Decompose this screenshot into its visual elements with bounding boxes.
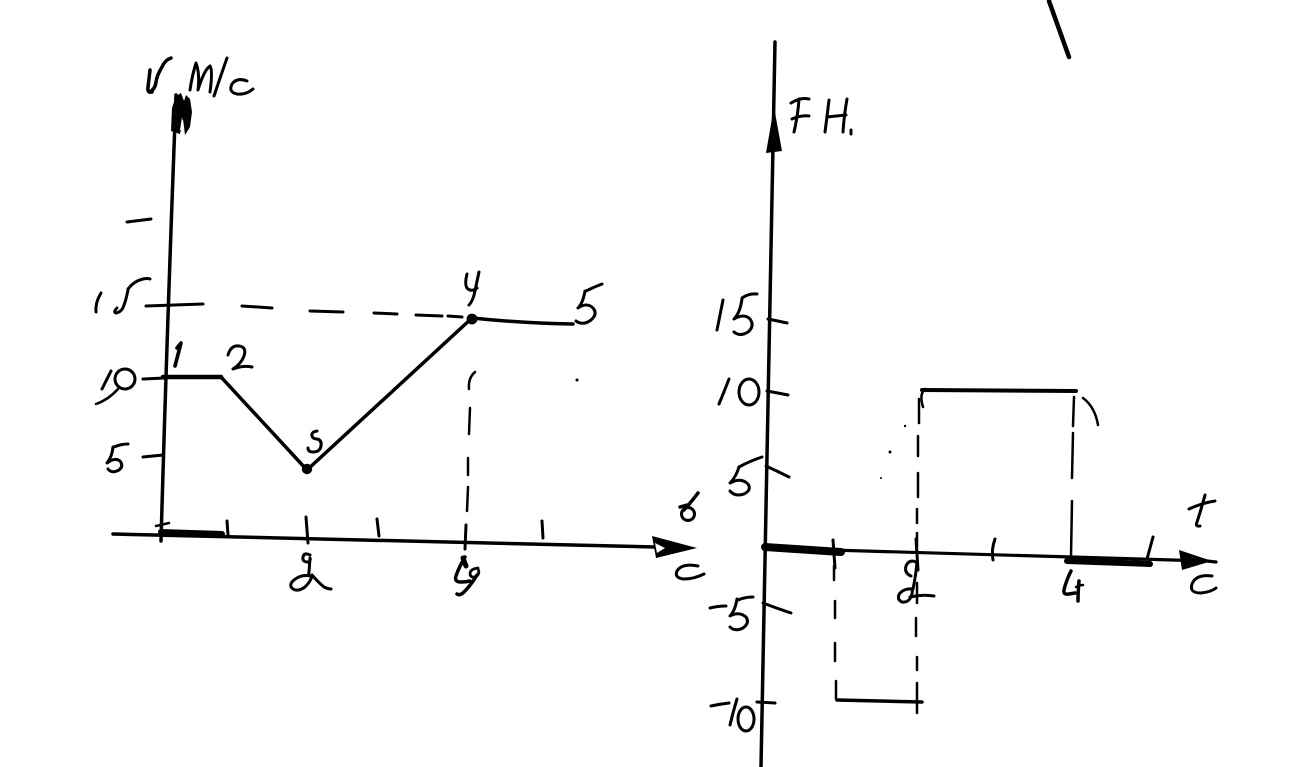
tick v=20 — [127, 219, 151, 222]
label 10 (right) — [719, 379, 729, 404]
tick t=1 (right) — [833, 540, 835, 568]
tick F=-10 — [757, 702, 775, 703]
small pen tick at left origin — [156, 523, 169, 526]
label 15 (right) — [717, 300, 723, 330]
x-axis label c (left graph) — [676, 565, 704, 579]
point 3 dot — [302, 464, 312, 474]
right graph: y-axis arrowhead — [766, 107, 782, 153]
hook at left end of +10 step — [921, 389, 925, 407]
label -5 (right) — [710, 606, 726, 608]
step F=+10 segment 2..4 — [922, 390, 1076, 391]
tick v=10 — [143, 378, 165, 379]
tick F=10 — [767, 391, 788, 395]
curve segment point4-point5 — [472, 318, 573, 324]
left graph: y-axis arrowhead blob — [171, 93, 192, 135]
dashed guide line t=4 (left) — [469, 372, 475, 389]
point label 3 — [308, 431, 321, 452]
hook right of t=4 drop — [1083, 398, 1098, 425]
label 15 (left) — [96, 293, 101, 312]
tick t=5 (right) — [1147, 537, 1153, 559]
tick t=5 (left) — [542, 521, 543, 538]
axis label F — [794, 99, 799, 132]
left graph: y-axis (v) — [161, 95, 176, 541]
stray pen stroke top right — [1049, 1, 1069, 57]
tick t=3 (right) — [992, 539, 995, 560]
tick v=15 — [146, 304, 203, 306]
label 10 (left) — [102, 371, 111, 389]
drop t=4 from +10 to axis — [1073, 397, 1074, 426]
axis label N (Н.) — [825, 100, 829, 132]
tick v=5 — [143, 455, 163, 457]
tick t=1 (left) — [227, 521, 228, 535]
label 4 on x-axis (right) — [1064, 571, 1075, 594]
step F=0 thick segment 0..1 — [765, 547, 841, 552]
step F=0 thick segment 4..5 — [1067, 561, 1150, 564]
curve segment point3-point4 — [307, 318, 472, 470]
axis label t (right graph) — [1196, 495, 1205, 526]
step F=-10 segment 1..2 — [837, 700, 922, 702]
point label 2 — [228, 346, 252, 369]
x-axis label s (delta-like) — [682, 508, 695, 521]
left graph: x-axis arrowhead — [652, 536, 697, 558]
label 4 on x-axis (left) — [456, 557, 470, 582]
right graph: x-axis (t) — [763, 548, 1216, 562]
dashed drop t=1 down to F=-10 — [833, 566, 836, 580]
label 2 on x-axis (left) — [303, 554, 311, 576]
left graph: x-axis thick overdraw near origin — [161, 532, 222, 534]
point 4 dot — [467, 314, 478, 325]
point label 5 — [576, 291, 595, 323]
dashed riser t=2 below axis — [916, 583, 919, 603]
right graph: y-axis (F) — [761, 42, 775, 767]
left graph: x-axis (t) — [113, 534, 655, 547]
tick t=2 (left) — [306, 517, 308, 543]
dashed guide line v=15 — [242, 306, 272, 308]
axis label m/s (м/с) — [190, 63, 212, 92]
tick t=3 (left) — [377, 519, 379, 536]
tick F=-5 — [763, 603, 791, 613]
dashed riser t=2 above axis — [918, 399, 921, 423]
label 2 on x-axis (right) — [906, 561, 916, 576]
tick F=5 — [766, 466, 789, 477]
point label 4 — [466, 274, 477, 290]
small ink specks — [576, 379, 579, 382]
point label 1 — [175, 343, 181, 366]
right graph: x-axis arrowhead — [1179, 550, 1212, 570]
axis label v — [148, 70, 152, 92]
axis label c (right graph) — [1191, 576, 1216, 593]
label 5 (left) — [107, 447, 122, 472]
curve segment point2-point3 — [221, 377, 307, 470]
tick t=2 (right) — [916, 539, 918, 570]
curve segment point1-point2 (v=10) — [163, 375, 221, 380]
label 5 (right) — [730, 467, 749, 495]
label -10 (right) — [711, 703, 729, 706]
tick F=15 — [768, 319, 787, 323]
tick t=4 (left) — [465, 525, 466, 549]
